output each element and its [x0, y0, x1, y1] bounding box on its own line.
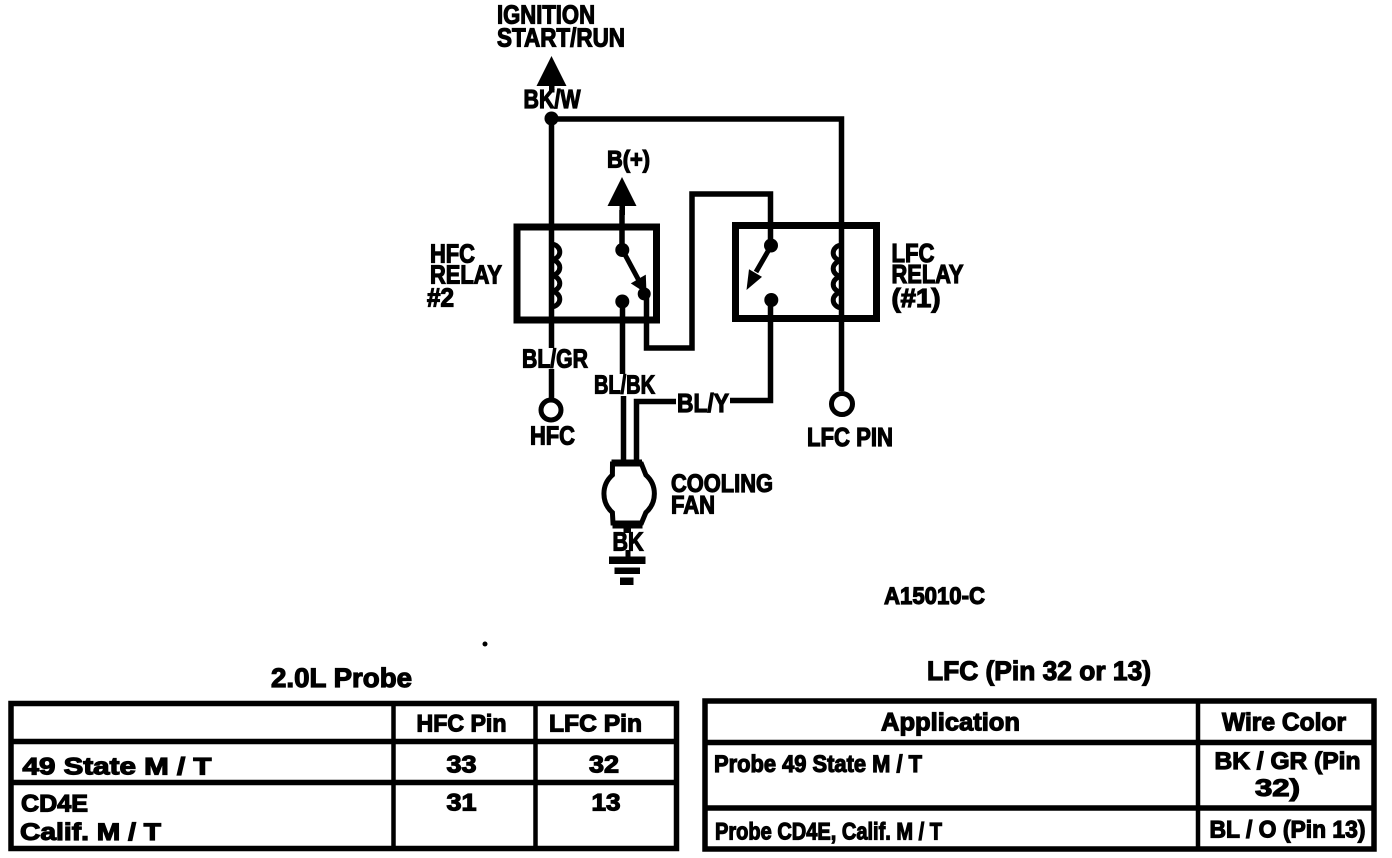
relay K1 label LFC RELAY (#1): [892, 238, 964, 313]
junction dot at BK/W node: [545, 112, 559, 126]
wire BK/W vertical into HFC relay coil: [549, 118, 555, 348]
svg-text:BL/GR: BL/GR: [522, 344, 588, 374]
svg-text:LFC (Pin 32 or 13): LFC (Pin 32 or 13): [927, 656, 1151, 686]
svg-text:BL / O (Pin 13): BL / O (Pin 13): [1210, 817, 1366, 844]
terminal circle HFC: [541, 400, 561, 420]
wire BL/BK lower to cooling fan: [621, 396, 627, 462]
svg-text:LFC Pin: LFC Pin: [549, 711, 642, 738]
svg-text:32): 32): [1255, 775, 1300, 802]
svg-text:BK/W: BK/W: [524, 84, 581, 114]
wire BL/GR below label to HFC terminal: [549, 369, 555, 398]
svg-text:BL/BK: BL/BK: [594, 370, 655, 400]
svg-text:49 State M / T: 49 State M / T: [23, 754, 212, 781]
left table row 2: CD4E Calif. M/T: [20, 790, 621, 847]
wire label BK/W run down to LFC PIN handled above; terminal circle LFC PIN: [832, 394, 853, 415]
svg-text:33: 33: [447, 752, 477, 779]
svg-text:2.0L Probe: 2.0L Probe: [271, 663, 412, 693]
svg-text:BK / GR (Pin: BK / GR (Pin: [1215, 748, 1361, 775]
svg-text:START/RUN: START/RUN: [497, 23, 625, 53]
svg-text:LFC PIN: LFC PIN: [807, 422, 893, 452]
stray scan dot: [483, 642, 488, 647]
motor M1 COOLING FAN symbol: [604, 460, 654, 534]
svg-text:HFC Pin: HFC Pin: [417, 711, 507, 738]
coil of HFC relay K2: [552, 244, 560, 307]
left table row 1: 49 State M/T: [23, 752, 620, 781]
wire LFC switch output down and left: [730, 300, 771, 401]
connector arrow to IGNITION (up triangle): [537, 56, 567, 93]
svg-text:Probe CD4E, Calif. M / T: Probe CD4E, Calif. M / T: [715, 819, 942, 846]
svg-text:Probe 49 State M / T: Probe 49 State M / T: [714, 751, 922, 778]
svg-text:31: 31: [447, 790, 477, 817]
svg-text:32: 32: [589, 752, 619, 779]
svg-text:A15010-C: A15010-C: [884, 583, 985, 610]
wire B(+) stem to switch: [619, 210, 625, 249]
svg-text:BL/Y: BL/Y: [677, 388, 729, 418]
node IGNITION START/RUN label: [497, 0, 625, 53]
wire HFC switch output (BL/BK upper): [620, 301, 626, 374]
wire BK/W junction to LFC relay coil (top horizontal run): [552, 119, 842, 391]
svg-text:(#1): (#1): [892, 283, 941, 313]
relay K2 label HFC RELAY #2: [427, 239, 502, 313]
right table frame: [703, 699, 1376, 849]
relay K2 box (HFC RELAY #2): [517, 227, 657, 320]
svg-text:CD4E: CD4E: [21, 791, 88, 818]
left table header cells: [417, 711, 643, 738]
switch contacts of HFC relay K2: [615, 243, 650, 309]
left table frame: [9, 702, 679, 849]
right table row 1: Probe 49 State M/T: [714, 748, 1361, 802]
wire BL/Y left stub to cooling fan: [637, 402, 677, 463]
switch contacts of LFC relay K1: [747, 239, 779, 308]
svg-text:B(+): B(+): [607, 147, 650, 174]
relay K1 box (LFC RELAY #1): [736, 226, 877, 319]
svg-text:Calif. M / T: Calif. M / T: [20, 819, 161, 846]
svg-text:HFC: HFC: [530, 421, 575, 451]
motor label COOLING FAN: [671, 470, 773, 520]
right table row 2: Probe CD4E Calif. M/T: [715, 817, 1366, 846]
svg-text:Application: Application: [881, 709, 1020, 737]
svg-text:Wire Color: Wire Color: [1222, 709, 1346, 737]
right table header cells: [881, 709, 1346, 737]
svg-text:FAN: FAN: [671, 492, 715, 520]
svg-text:#2: #2: [427, 283, 454, 313]
coil of LFC relay K1: [833, 245, 841, 308]
connector arrow B(+) (up triangle): [608, 177, 637, 215]
svg-text:13: 13: [592, 790, 621, 817]
ground symbol: [609, 550, 646, 585]
wire from HFC switch blade to LFC switch (via jog): [647, 194, 771, 348]
